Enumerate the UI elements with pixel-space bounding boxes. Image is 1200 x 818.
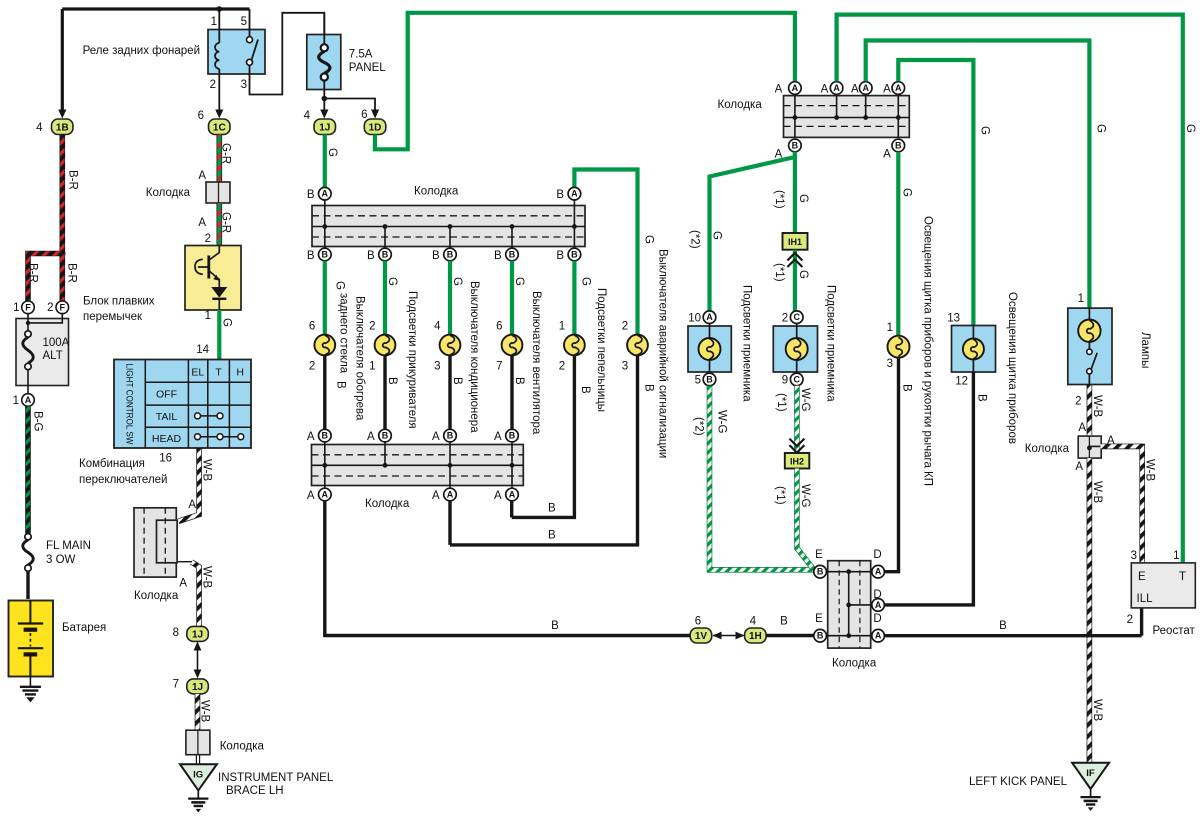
bulb radio2 <box>796 324 798 339</box>
connector 1D <box>364 119 386 135</box>
svg-text:A: A <box>307 490 315 502</box>
svg-text:B: B <box>335 381 347 389</box>
wire G to bulb3 <box>448 261 452 335</box>
svg-text:12: 12 <box>955 376 968 388</box>
svg-text:B: B <box>386 377 398 385</box>
svg-text:D: D <box>873 613 881 625</box>
svg-text:B: B <box>556 189 564 201</box>
svg-text:Подсветки пепельницы: Подсветки пепельницы <box>595 288 607 412</box>
svg-text:Выключателя аварийной сигнализ: Выключателя аварийной сигнализации <box>657 249 669 458</box>
pin A3 <box>859 82 872 95</box>
svg-text:W-B: W-B <box>199 700 211 722</box>
wire G to bulb5 <box>572 261 576 335</box>
svg-text:1: 1 <box>211 16 217 28</box>
svg-text:W-G: W-G <box>799 388 811 411</box>
svg-text:A: A <box>494 490 502 502</box>
connector 1J (8) <box>187 626 209 641</box>
svg-text:2: 2 <box>369 321 375 333</box>
wire to 1D branch <box>324 99 375 111</box>
svg-text:B: B <box>999 620 1007 632</box>
svg-text:B: B <box>322 431 329 441</box>
svg-text:6: 6 <box>309 321 315 333</box>
svg-text:INSTRUMENT PANEL: INSTRUMENT PANEL <box>218 772 334 784</box>
svg-text:TAIL: TAIL <box>156 411 178 423</box>
svg-text:Реле задних фонарей: Реле задних фонарей <box>83 45 200 57</box>
svg-text:B: B <box>551 620 559 632</box>
svg-text:B: B <box>571 250 578 260</box>
middle connector Колодка (upper bar) <box>312 206 585 247</box>
svg-text:Колодка: Колодка <box>414 186 459 198</box>
svg-text:D: D <box>873 549 881 561</box>
connector Колодка small (ground) <box>186 730 210 755</box>
internal link F2 to fuse <box>28 314 62 323</box>
svg-text:IF: IF <box>1086 768 1095 779</box>
svg-text:B: B <box>792 141 799 151</box>
right connector Колодка (vertical) <box>828 561 871 648</box>
svg-text:F: F <box>25 302 31 312</box>
bulb: rear window defogger switch illumination <box>314 335 335 356</box>
svg-text:G: G <box>797 270 809 279</box>
svg-text:B-G: B-G <box>32 411 44 432</box>
node: junction at relay pin1 <box>217 6 223 12</box>
svg-text:Выключателя обогрева: Выключателя обогрева <box>354 296 366 421</box>
svg-text:G: G <box>220 318 232 327</box>
svg-text:T: T <box>215 367 222 379</box>
wire G A4 to panel light <box>898 60 973 326</box>
svg-text:1J: 1J <box>319 123 330 134</box>
svg-text:G: G <box>643 235 655 244</box>
wire B 1H to right connector <box>766 634 814 637</box>
svg-text:B-R: B-R <box>66 263 78 283</box>
svg-text:A: A <box>198 217 206 229</box>
relay coil <box>218 9 220 43</box>
svg-text:4: 4 <box>750 616 757 628</box>
wire to IG <box>196 755 199 765</box>
svg-text:G: G <box>1094 124 1106 133</box>
svg-text:C: C <box>793 312 800 322</box>
HEAD contacts <box>198 436 241 438</box>
svg-text:4: 4 <box>434 321 441 333</box>
wire: drop to 1B <box>61 9 64 110</box>
svg-text:8: 8 <box>173 627 179 639</box>
svg-text:2: 2 <box>782 313 788 325</box>
svg-text:6: 6 <box>198 110 204 122</box>
svg-text:B: B <box>432 250 440 262</box>
fusible link FL MAIN 3 OW <box>25 534 31 540</box>
connector 1B <box>52 119 74 135</box>
svg-text:5: 5 <box>695 375 701 387</box>
bulb: cigarette lighter illumination <box>375 335 396 356</box>
svg-text:Подсветки приемника: Подсветки приемника <box>741 285 753 402</box>
svg-text:B: B <box>706 374 713 384</box>
svg-text:1: 1 <box>13 302 19 314</box>
svg-text:Лампы: Лампы <box>1139 332 1151 368</box>
svg-text:E: E <box>815 549 823 561</box>
svg-text:Колодка: Колодка <box>146 187 191 199</box>
wire B-R from 1B <box>59 135 65 254</box>
svg-text:A: A <box>1078 422 1086 434</box>
svg-text:A: A <box>494 431 502 443</box>
wire B bulb5 to lower bar A3 <box>512 355 575 517</box>
svg-text:G: G <box>711 231 723 240</box>
svg-text:B: B <box>513 377 525 385</box>
fuse 7.5A PANEL <box>307 35 341 90</box>
svg-text:PANEL: PANEL <box>349 62 386 74</box>
node below fuse <box>322 96 328 102</box>
wire B bulb6 to lower bar A2 <box>450 355 638 545</box>
svg-text:A: A <box>322 189 329 199</box>
svg-text:A: A <box>821 84 829 96</box>
svg-text:G: G <box>326 148 338 157</box>
ground IG INSTRUMENT PANEL BRACE LH <box>180 764 217 790</box>
lamp unit Лампы <box>1068 308 1112 384</box>
svg-text:2: 2 <box>1075 396 1081 408</box>
transistor Q1 <box>210 246 220 260</box>
bulb radio1 <box>709 324 711 339</box>
svg-text:9: 9 <box>782 375 788 387</box>
svg-text:Реостат: Реостат <box>1153 625 1196 637</box>
svg-text:Блок плавких: Блок плавких <box>83 296 155 308</box>
radio illumination unit 1 <box>688 326 731 372</box>
wire to 1J arrow <box>323 99 325 111</box>
wire G-R upper <box>217 135 223 183</box>
ground IF LEFT KICK PANEL <box>1072 763 1109 789</box>
svg-text:Колодка: Колодка <box>220 741 265 753</box>
bulb: fan switch illumination <box>502 335 523 356</box>
bulb: ashtray illumination <box>564 335 585 356</box>
wire B bulb2 down <box>383 355 386 429</box>
relay switch <box>249 9 251 36</box>
svg-text:13: 13 <box>947 313 960 325</box>
svg-text:IG: IG <box>193 770 203 781</box>
svg-text:3: 3 <box>241 79 247 91</box>
wire G B2 to switch bulb <box>896 152 900 337</box>
svg-text:A: A <box>307 431 315 443</box>
svg-text:1: 1 <box>1173 550 1179 562</box>
svg-text:B: B <box>447 431 454 441</box>
svg-text:OFF: OFF <box>156 389 177 401</box>
svg-text:W-B: W-B <box>1091 699 1103 721</box>
svg-text:10: 10 <box>688 313 701 325</box>
double arrow 1V 1H <box>713 635 744 637</box>
svg-text:B: B <box>975 394 987 402</box>
svg-text:B-R: B-R <box>67 170 79 190</box>
connector 1V <box>690 628 712 643</box>
svg-text:1C: 1C <box>213 123 226 134</box>
svg-text:B: B <box>548 530 556 542</box>
pin A right (middle bar) <box>568 187 581 200</box>
svg-text:Колодка: Колодка <box>832 658 877 670</box>
svg-text:A: A <box>851 84 859 96</box>
svg-text:Освещения щитка приборов и рук: Освещения щитка приборов и рукоятки рыча… <box>922 216 934 486</box>
fusible link block Блок плавких перемычек <box>16 319 69 386</box>
svg-text:HEAD: HEAD <box>152 433 182 445</box>
svg-text:1: 1 <box>887 322 893 334</box>
pin B top-left right connector <box>814 565 827 578</box>
panel light unit <box>952 326 996 373</box>
svg-text:B: B <box>556 250 564 262</box>
svg-text:A: A <box>447 490 454 500</box>
svg-text:B: B <box>817 631 824 641</box>
svg-text:7: 7 <box>496 361 502 373</box>
wire W-G radio2 to IH2 <box>794 386 800 453</box>
wire G B1 branch to radio lamp A <box>710 152 795 311</box>
connector 1C <box>209 119 231 135</box>
svg-text:B: B <box>451 377 463 385</box>
wire B-R branch to F1 <box>28 254 62 302</box>
svg-text:4: 4 <box>36 122 43 134</box>
wire W-G radio1 to right connector <box>710 386 814 570</box>
svg-text:B: B <box>447 250 454 260</box>
svg-text:1J: 1J <box>192 682 203 693</box>
pin A fuse block <box>22 394 35 407</box>
svg-text:W-B: W-B <box>1091 481 1103 503</box>
lamp switch <box>1087 349 1092 354</box>
svg-text:G: G <box>334 281 346 290</box>
svg-text:Выключателя кондиционера: Выключателя кондиционера <box>468 281 480 433</box>
svg-text:1V: 1V <box>695 631 708 642</box>
TAIL contacts <box>198 415 221 417</box>
svg-text:A: A <box>1075 461 1083 473</box>
wire G to bulb2 <box>383 261 387 335</box>
wire G-R lower <box>217 203 223 246</box>
wire W-B branch to rheostat pin3 <box>1101 446 1143 563</box>
pin F1 <box>22 301 35 314</box>
svg-text:D: D <box>873 589 881 601</box>
svg-text:2: 2 <box>559 361 565 373</box>
svg-text:(*1): (*1) <box>774 486 786 505</box>
wire G to bulb4 <box>510 261 514 335</box>
svg-text:B: B <box>509 250 516 260</box>
svg-text:B-R: B-R <box>27 263 39 283</box>
svg-text:A: A <box>198 170 206 182</box>
svg-text:A: A <box>322 490 329 500</box>
svg-text:2: 2 <box>205 233 211 245</box>
bulb: hazard switch illumination <box>627 335 648 356</box>
wire B-G <box>25 406 31 533</box>
wire G IH1 to radio C <box>793 250 797 311</box>
svg-text:T: T <box>1179 571 1186 583</box>
svg-text:B: B <box>817 567 824 577</box>
svg-text:G: G <box>451 277 463 286</box>
svg-text:LEFT KICK PANEL: LEFT KICK PANEL <box>969 776 1068 788</box>
wire B bottom to rheostat pin2 <box>884 634 1141 637</box>
wire to battery <box>26 571 29 599</box>
svg-text:3: 3 <box>887 358 893 370</box>
svg-text:заднего стекла: заднего стекла <box>338 293 350 374</box>
diode D1 <box>212 288 226 297</box>
svg-text:B: B <box>895 141 902 151</box>
svg-text:A: A <box>432 490 440 502</box>
wire B bulb1 down <box>323 355 326 429</box>
svg-text:W-G: W-G <box>799 484 811 507</box>
svg-text:2: 2 <box>309 361 315 373</box>
svg-text:1D: 1D <box>369 123 382 134</box>
pin A radio1 <box>703 311 716 324</box>
battery Батарея <box>9 601 54 677</box>
pin B2 bottom <box>892 139 905 152</box>
wire W-G IH2 to right connector <box>797 469 814 570</box>
svg-text:7: 7 <box>173 679 179 691</box>
svg-text:G: G <box>1184 124 1196 133</box>
svg-text:5: 5 <box>241 16 247 28</box>
svg-text:6: 6 <box>361 109 367 121</box>
wire relay pin3 to fuse <box>250 13 325 95</box>
pin A1 top right connector <box>789 82 802 95</box>
svg-text:A: A <box>432 431 440 443</box>
svg-text:A: A <box>188 499 196 511</box>
svg-text:B: B <box>901 384 913 392</box>
svg-text:A: A <box>875 567 882 577</box>
pin C radio2 bottom <box>790 373 803 386</box>
svg-text:(*1): (*1) <box>773 263 785 282</box>
svg-text:B: B <box>367 250 375 262</box>
svg-text:G: G <box>513 277 525 286</box>
svg-text:E: E <box>815 613 823 625</box>
svg-text:W-B: W-B <box>201 566 213 588</box>
pins B top (lower bar) <box>319 429 332 442</box>
wire B shift bulb to connector <box>884 357 898 572</box>
svg-text:Подсветки прикуривателя: Подсветки прикуривателя <box>406 291 418 429</box>
svg-text:G: G <box>386 277 398 286</box>
svg-text:W-B: W-B <box>1091 395 1103 417</box>
svg-text:A: A <box>833 83 840 93</box>
svg-text:Освещения щитка приборов: Освещения щитка приборов <box>1006 292 1018 444</box>
svg-text:Колодка: Колодка <box>365 498 410 510</box>
svg-text:3: 3 <box>1131 550 1137 562</box>
connector Колодка small (1C line) <box>206 182 230 203</box>
svg-text:3: 3 <box>434 361 440 373</box>
pin F2 <box>56 301 69 314</box>
connector 1J (7) <box>187 679 209 694</box>
pin B bottom-left right connector <box>814 629 827 642</box>
svg-text:E: E <box>1138 571 1146 583</box>
svg-text:Выключателя вентилятора: Выключателя вентилятора <box>530 291 542 435</box>
svg-text:16: 16 <box>159 453 172 465</box>
svg-text:A: A <box>883 149 891 161</box>
svg-text:A: A <box>875 600 882 610</box>
svg-text:F: F <box>60 302 66 312</box>
svg-text:G: G <box>797 194 809 203</box>
pin A2 <box>830 82 843 95</box>
svg-text:A: A <box>862 83 869 93</box>
svg-text:B: B <box>307 250 315 262</box>
svg-text:LIGHT CONTROL SW: LIGHT CONTROL SW <box>125 364 135 445</box>
wire B panel light to connector <box>884 372 973 605</box>
svg-text:H: H <box>236 367 244 379</box>
svg-text:A: A <box>875 631 882 641</box>
svg-text:Колодка: Колодка <box>718 99 763 111</box>
bulb: shift lever illumination <box>888 336 910 358</box>
arrow into 1B <box>58 110 66 119</box>
svg-text:1H: 1H <box>749 631 762 642</box>
svg-text:A: A <box>25 395 32 405</box>
svg-text:Комбинация: Комбинация <box>79 458 145 470</box>
svg-text:C: C <box>793 374 800 384</box>
svg-text:A: A <box>883 84 891 96</box>
svg-text:FL MAIN: FL MAIN <box>46 540 91 552</box>
svg-text:ILL: ILL <box>1137 593 1154 605</box>
svg-text:1: 1 <box>205 310 211 322</box>
connector 1J (fuse) <box>314 119 336 135</box>
svg-text:B: B <box>548 503 556 515</box>
noise filter IH1 <box>783 233 808 250</box>
pins A bottom (lower bar) <box>319 488 332 501</box>
wire relay pin2 to 1C <box>218 74 220 110</box>
wire B bulb4 down <box>510 355 513 429</box>
wire B bulb3 down <box>448 355 451 429</box>
svg-text:A: A <box>706 312 713 322</box>
svg-text:G: G <box>579 277 591 286</box>
wire G to light switch <box>217 310 221 360</box>
chevrons into IH2 <box>789 439 804 453</box>
double arrow between 1J connectors <box>197 646 199 673</box>
light control switch table <box>114 360 251 449</box>
svg-text:6: 6 <box>695 616 701 628</box>
connector Колодка small right <box>1078 436 1101 458</box>
wire G A3 to lamp unit <box>866 41 1090 309</box>
svg-text:1: 1 <box>1078 293 1084 305</box>
svg-text:1: 1 <box>559 321 565 333</box>
pin C radio2 top <box>790 311 803 324</box>
radio illumination unit 2 <box>773 326 817 372</box>
svg-text:ALT: ALT <box>43 350 63 362</box>
svg-text:B: B <box>322 250 329 260</box>
svg-text:B: B <box>382 250 389 260</box>
wire W-B from pin 16 <box>179 448 200 521</box>
svg-text:2: 2 <box>47 302 53 314</box>
svg-text:BRACE LH: BRACE LH <box>226 785 284 797</box>
connector 1H <box>745 628 767 643</box>
wire G middle connector A right to hazard bulb <box>574 170 637 335</box>
wire: top feed horizontal <box>62 7 249 10</box>
svg-text:B: B <box>307 189 315 201</box>
svg-text:W-G: W-G <box>716 410 728 433</box>
svg-text:2: 2 <box>622 321 628 333</box>
svg-text:2: 2 <box>1127 614 1133 626</box>
wire G B1 to IH1 <box>793 152 797 233</box>
svg-text:IH2: IH2 <box>790 457 804 467</box>
svg-text:1: 1 <box>13 395 19 407</box>
svg-text:B: B <box>579 386 591 394</box>
pins A right side <box>872 565 885 578</box>
svg-text:G-R: G-R <box>220 212 232 233</box>
node: B-R split <box>59 250 65 256</box>
svg-text:A: A <box>792 83 799 93</box>
svg-text:1J: 1J <box>192 630 203 641</box>
transistor unit (tail light relay) <box>185 246 241 311</box>
svg-text:4: 4 <box>304 110 311 122</box>
pin B1 bottom <box>789 139 802 152</box>
svg-text:100A: 100A <box>43 337 70 349</box>
connector Колодка (pair) <box>134 508 176 577</box>
fuse 100A ALT <box>25 331 31 337</box>
svg-text:перемычек: перемычек <box>83 311 143 323</box>
svg-text:A: A <box>367 431 375 443</box>
svg-text:IH1: IH1 <box>788 237 802 247</box>
pin A4 <box>892 82 905 95</box>
wire W-B lamp to connector <box>1087 385 1093 437</box>
svg-text:A: A <box>895 83 902 93</box>
ground battery <box>29 677 31 687</box>
svg-text:A: A <box>571 189 578 199</box>
svg-text:6: 6 <box>496 321 502 333</box>
svg-text:W-B: W-B <box>1144 459 1156 481</box>
wire W-B down to IF ground <box>1087 458 1093 763</box>
bulb: air conditioner switch illumination <box>440 335 461 356</box>
svg-text:B: B <box>382 431 389 441</box>
svg-text:G: G <box>978 126 990 135</box>
